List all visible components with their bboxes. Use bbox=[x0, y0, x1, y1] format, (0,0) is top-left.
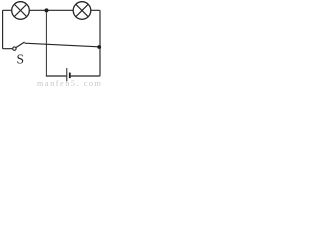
junction dot (node) bbox=[45, 8, 49, 12]
junction dot (node, right vertical) bbox=[97, 45, 101, 49]
svg-text:S: S bbox=[16, 52, 24, 67]
svg-text:manfen5. com: manfen5. com bbox=[37, 79, 102, 87]
wire: between lamps bbox=[29, 9, 73, 11]
wire: left branch (top-left corner down to switch) bbox=[3, 10, 13, 48]
battery: long thin plate (+) bbox=[66, 68, 68, 81]
wire: middle vertical (junction dot down to bottom wire) bbox=[45, 11, 47, 76]
wire: switch across to right vertical bbox=[25, 43, 99, 47]
lamp (left): circle with X bbox=[12, 2, 30, 20]
lamp (right): circle with X bbox=[73, 2, 91, 20]
switch S: pivot circle bbox=[13, 47, 16, 50]
switch S: blade bbox=[16, 42, 25, 48]
battery: short thick plate (-) bbox=[69, 73, 71, 79]
wire: bottom (middle vertical to battery long plate) bbox=[46, 75, 66, 77]
wire: right side loop (lamp to bottom-right corner to battery +) bbox=[71, 10, 100, 76]
